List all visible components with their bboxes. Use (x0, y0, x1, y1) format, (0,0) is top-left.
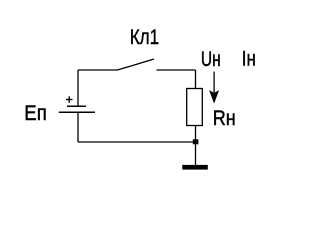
wire: right vertical upper (down to resistor) (195, 70, 197, 89)
wire: right vertical lower (resistor to ground) (195, 126, 197, 166)
ground (182, 165, 208, 170)
svg-text:Iн: Iн (242, 47, 256, 71)
node: junction dot (193, 139, 199, 144)
wire: top left horizontal segment to switch left contact (78, 69, 118, 71)
arrow for Uн (current direction, pointing down) (213, 72, 215, 96)
wire: top right horizontal segment from switch right contact (157, 69, 196, 71)
wire: left vertical lower (battery to bottom wire) (77, 112, 79, 142)
battery + polarity mark (66, 96, 73, 102)
svg-text:Rн: Rн (213, 106, 236, 130)
svg-text:Еп: Еп (24, 101, 47, 125)
svg-text:Кл1: Кл1 (130, 25, 160, 49)
battery Еп positive plate (short, top) (67, 105, 86, 107)
wire: bottom horizontal (battery minus to junction) (78, 141, 196, 143)
switch Кл1 blade (open, diagonal) (118, 59, 155, 70)
battery Еп negative plate (long, bottom) (59, 111, 95, 113)
resistor Rн body (187, 89, 203, 126)
svg-text:Uн: Uн (201, 47, 221, 71)
wire: left vertical upper (from top-left corner down to battery + plate) (77, 70, 79, 106)
